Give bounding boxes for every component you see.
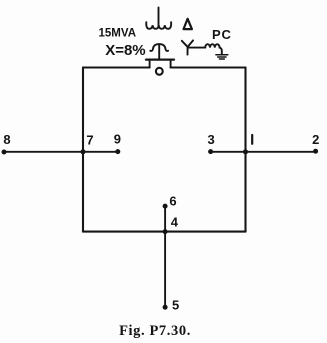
svg-text:9: 9 [114, 132, 121, 147]
wire: wye neutral to coil [188, 47, 205, 49]
ground symbol [216, 54, 228, 56]
wire: bus 0 top-left segment [83, 66, 150, 68]
node 9 dot [115, 149, 120, 154]
wire: left drop tick to bus 0 [149, 60, 151, 68]
transformer T1 secondary terminal bar [146, 58, 174, 60]
svg-text:7: 7 [86, 132, 93, 147]
wire: HV lead to transformer [158, 8, 160, 26]
node 4 dot [163, 229, 168, 234]
delta winding symbol [184, 19, 192, 29]
svg-text:X=8%: X=8% [105, 42, 145, 59]
inductor PC (Petersen coil) [205, 44, 222, 54]
wire: right drop tick to bus 0 [170, 60, 172, 68]
svg-text:PC: PC [212, 27, 232, 42]
node 8 dot [2, 150, 7, 155]
transformer T1 primary winding (scalloped coil) [146, 22, 171, 29]
wye winding symbol [182, 40, 193, 54]
svg-text:8: 8 [3, 132, 10, 147]
wire: bus 0 top-right segment [171, 66, 246, 68]
node 5 dot [163, 305, 168, 310]
wire: center stem through nodes 6-4-5 [164, 206, 166, 307]
svg-text:5: 5 [172, 297, 179, 312]
svg-text:3: 3 [207, 132, 214, 147]
svg-text:4: 4 [171, 215, 179, 230]
svg-text:2: 2 [312, 132, 319, 147]
transformer T1 secondary winding (arc with flared ends) [150, 44, 168, 51]
wire: left side of loop (bus 7) [82, 68, 84, 232]
wire: right side of loop (bus 1) [244, 68, 246, 232]
label for node 1 (plain bar) [251, 135, 253, 144]
node 2 dot [313, 149, 318, 154]
svg-text:15MVA: 15MVA [99, 28, 137, 40]
node 1 dot [243, 149, 248, 154]
node 7 dot [81, 149, 86, 154]
node 0 (circle symbol on bus) [156, 68, 163, 75]
svg-text:6: 6 [169, 194, 176, 209]
svg-text:Fig. P7.30.: Fig. P7.30. [119, 323, 191, 339]
wire: right stub through nodes 3-1-2 [211, 151, 316, 153]
wire: bottom side of loop [83, 231, 246, 233]
node 3 dot [208, 149, 213, 154]
wire: transformer stem [158, 45, 160, 59]
wire: left stub through nodes 8-7-9 [4, 151, 118, 153]
node 6 dot [163, 204, 168, 209]
